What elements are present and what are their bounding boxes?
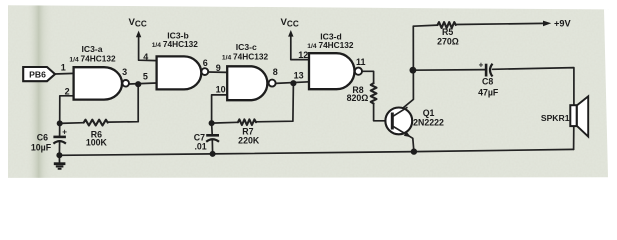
power +9V arrow (543, 19, 571, 29)
gate IC3-d (307, 31, 362, 89)
node gate-c output (290, 80, 296, 86)
svg-text:+9V: +9V (554, 19, 571, 29)
svg-text:C8: C8 (482, 76, 493, 86)
wire VCC1 to pin4 (139, 34, 157, 61)
resistor R8 (371, 83, 377, 103)
node C7/rail (210, 151, 216, 157)
svg-text:11: 11 (356, 57, 366, 67)
paper background (0, 0, 617, 182)
wire C6 bottom to rail (58, 141, 60, 155)
wire R6 feedback (60, 84, 139, 123)
gate IC3-a U1a (69, 44, 129, 100)
svg-text:10: 10 (216, 85, 226, 95)
wire gate-b output to gate-c pin9 (208, 71, 227, 73)
wire PB6 to pin1 (55, 72, 74, 75)
node collector/C8 (410, 67, 417, 74)
wire top rail to R5 (413, 25, 437, 26)
svg-text:220K: 220K (238, 135, 260, 145)
svg-text:.01: .01 (194, 141, 206, 151)
wire pin2 to node (60, 96, 74, 124)
node pin10/R7/C7 (209, 120, 215, 126)
svg-text:270Ω: 270Ω (437, 37, 459, 47)
wire C7 bottom to rail (211, 140, 213, 154)
capacitor C7 (194, 132, 219, 151)
wire R8 to base (374, 104, 393, 121)
wire gate-c output to gate-d pin13 (276, 82, 309, 84)
svg-text:1: 1 (61, 62, 66, 72)
svg-text:5: 5 (143, 71, 148, 81)
svg-text:C6: C6 (37, 132, 48, 142)
svg-text:9: 9 (216, 63, 221, 73)
wire R5 to +9V arrow (456, 23, 544, 24)
wire node to C7 top (211, 123, 214, 134)
capacitor C6 (31, 128, 67, 153)
svg-text:VCC: VCC (129, 17, 147, 29)
wire ground rail (59, 149, 573, 155)
resistor R7 (238, 119, 256, 125)
svg-text:12: 12 (298, 50, 308, 60)
ground (54, 155, 66, 169)
capacitor C8 (478, 60, 499, 97)
wire gate-d output to R8 (362, 71, 374, 83)
wire VCC2 to pin12 (291, 33, 309, 60)
node pin2/R6/C6 (57, 120, 63, 126)
svg-text:+: + (479, 60, 484, 69)
node C6/rail (56, 152, 62, 158)
pin number labels (61, 50, 366, 96)
svg-text:+: + (62, 128, 67, 137)
wire C8 to speaker (493, 68, 574, 106)
wire node to C6 top (59, 123, 61, 136)
speaker SPKR1 (541, 96, 588, 136)
PB6 input tag (23, 67, 55, 81)
node emitter/rail (411, 148, 417, 154)
svg-text:13: 13 (294, 71, 304, 81)
resistor R6 (84, 120, 108, 126)
svg-text:4: 4 (143, 52, 148, 62)
node gate-a output (135, 81, 141, 87)
svg-text:820Ω: 820Ω (347, 93, 369, 103)
power VCC arrow 1 (129, 17, 147, 37)
wire C8 branch left (413, 69, 486, 72)
svg-text:VCC: VCC (281, 17, 299, 29)
junction dots (56, 67, 417, 159)
wire collector to +9V corner (393, 26, 414, 116)
wire emitter (393, 126, 414, 151)
svg-text:47µF: 47µF (478, 87, 499, 97)
svg-text:6: 6 (203, 58, 208, 68)
component value labels (86, 27, 459, 148)
gate IC3-c (222, 42, 276, 100)
power VCC arrow 2 (281, 17, 299, 37)
transistor Q1 (385, 107, 444, 137)
svg-text:2N2222: 2N2222 (413, 117, 444, 127)
resistor R5 (438, 22, 456, 28)
wire speaker bottom to rail (573, 126, 575, 149)
svg-text:PB6: PB6 (29, 70, 46, 80)
wire R7 feedback (212, 83, 294, 123)
svg-text:2: 2 (65, 86, 70, 96)
svg-text:SPKR1: SPKR1 (541, 113, 570, 123)
svg-text:10µF: 10µF (31, 143, 52, 153)
svg-text:3: 3 (122, 67, 127, 77)
svg-text:8: 8 (273, 67, 278, 77)
wire pin10 (212, 95, 228, 123)
wire gate-a output to gate-b pin5 (129, 83, 156, 84)
gate IC3-b (152, 31, 209, 90)
svg-text:100K: 100K (86, 138, 108, 148)
